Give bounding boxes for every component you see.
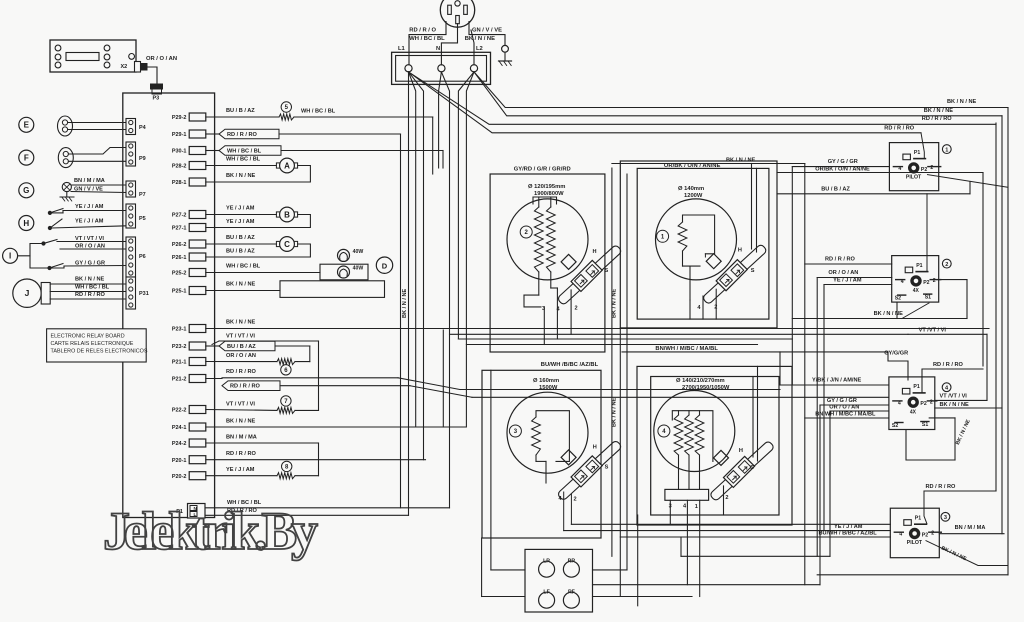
svg-text:GY / G / GR: GY / G / GR [828,159,858,165]
svg-text:RR: RR [568,558,576,564]
svg-text:RD / R / RO: RD / R / RO [926,484,956,490]
svg-text:GY / G / GR: GY / G / GR [827,398,857,404]
svg-text:1900/800W: 1900/800W [534,191,564,197]
svg-text:P3: P3 [153,96,160,102]
svg-text:BN / M / MA: BN / M / MA [74,178,105,184]
svg-text:P25-1: P25-1 [172,289,187,295]
svg-text:P9: P9 [139,156,146,162]
svg-text:2: 2 [575,305,578,311]
svg-text:P1: P1 [916,263,922,269]
svg-text:BK / N / NE: BK / N / NE [947,99,976,105]
svg-text:BK / N / NE: BK / N / NE [874,311,903,317]
svg-text:BU / B / AZ: BU / B / AZ [226,249,255,255]
svg-text:RD / R / RO: RD / R / RO [226,369,256,375]
svg-text:P31: P31 [139,291,149,297]
svg-text:P21-1: P21-1 [172,360,187,366]
svg-text:N: N [436,46,440,52]
svg-text:P28-1: P28-1 [172,180,187,186]
svg-text:OR / O / AN: OR / O / AN [146,56,177,62]
svg-text:I: I [9,252,11,261]
svg-text:P2: P2 [923,280,929,286]
svg-text:4X: 4X [910,409,917,415]
svg-text:Y/BK / J/N / AM/NE: Y/BK / J/N / AM/NE [812,378,861,384]
svg-text:WH / BC / BL: WH / BC / BL [227,149,262,155]
svg-text:40W: 40W [353,249,364,255]
svg-text:P25-2: P25-2 [172,271,187,277]
svg-text:OR / O / AN: OR / O / AN [75,244,105,250]
svg-text:RD / R / RO: RD / R / RO [227,132,257,138]
svg-text:RD / R / RO: RD / R / RO [884,126,914,132]
svg-text:H: H [593,249,597,255]
svg-text:WH / BC / BL: WH / BC / BL [75,284,110,290]
svg-text:P29-1: P29-1 [172,132,187,138]
svg-text:OR / O / AN: OR / O / AN [828,270,858,276]
svg-text:BN / M / MA: BN / M / MA [226,435,257,441]
svg-text:4: 4 [697,305,701,311]
svg-text:BU / B / AZ: BU / B / AZ [226,108,255,114]
svg-text:S: S [751,268,755,274]
svg-text:BN/WH / M/BC / MA/BL: BN/WH / M/BC / MA/BL [655,346,718,352]
svg-text:S: S [605,464,609,470]
svg-text:BN / M / MA: BN / M / MA [955,525,986,531]
svg-text:YE / J / AM: YE / J / AM [834,524,863,530]
svg-text:BU/WH /B/BC /AZ/BL: BU/WH /B/BC /AZ/BL [541,362,599,368]
svg-text:1500W: 1500W [539,385,558,391]
svg-text:RD / R / RO: RD / R / RO [230,384,260,390]
svg-text:P1: P1 [914,150,920,156]
svg-text:2: 2 [945,262,948,268]
svg-text:F: F [24,153,29,162]
svg-text:GY / G / GR: GY / G / GR [75,261,105,267]
svg-text:BK / N / NE: BK / N / NE [226,418,255,424]
svg-text:BK / N / NE: BK / N / NE [226,173,255,179]
svg-text:OR/BK / O/N / AN/NE: OR/BK / O/N / AN/NE [815,166,870,172]
svg-text:P23-1: P23-1 [172,327,187,333]
svg-text:P24-1: P24-1 [172,425,187,431]
svg-text:VT /VT / VI: VT /VT / VI [919,328,947,334]
svg-text:L2: L2 [476,46,483,52]
svg-text:BK / N / NE: BK / N / NE [924,108,953,114]
svg-text:Jelektrik.By: Jelektrik.By [103,501,318,561]
svg-text:H: H [739,448,743,454]
svg-text:RD / R / RO: RD / R / RO [226,451,256,457]
svg-text:P4: P4 [139,125,147,131]
svg-text:P21-2: P21-2 [172,377,187,383]
svg-text:BN/WH / M/BC / MA/BL: BN/WH / M/BC / MA/BL [815,411,876,417]
svg-text:VT /VT / VI: VT /VT / VI [940,394,968,400]
svg-text:P5: P5 [139,216,146,222]
svg-text:PILOT: PILOT [906,175,922,181]
svg-text:H: H [23,219,29,228]
svg-text:RD / R / RO: RD / R / RO [933,362,963,368]
svg-text:4: 4 [945,385,949,391]
svg-text:P20-1: P20-1 [172,458,187,464]
svg-text:YE / J / AM: YE / J / AM [75,204,104,210]
svg-text:ELECTRONIC RELAY BOARD: ELECTRONIC RELAY BOARD [51,334,125,340]
svg-text:YE / J / AM: YE / J / AM [75,218,104,224]
svg-text:P29-2: P29-2 [172,115,187,121]
svg-text:4X: 4X [913,288,920,294]
svg-text:LR: LR [543,558,550,564]
svg-text:Ø 160mm: Ø 160mm [533,378,559,384]
svg-text:P26-1: P26-1 [172,255,187,261]
svg-text:S2: S2 [895,296,901,302]
svg-text:BU / B / AZ: BU / B / AZ [226,235,255,241]
svg-text:YE / J / AM: YE / J / AM [226,467,255,473]
svg-text:GN / V / VE: GN / V / VE [472,27,502,33]
svg-text:Ø 140mm: Ø 140mm [678,186,704,192]
svg-text:BK / N / NE: BK / N / NE [75,277,104,283]
svg-text:B: B [284,211,290,220]
svg-text:P6: P6 [139,254,146,260]
svg-text:RD / R / RO: RD / R / RO [922,116,952,122]
svg-text:OR / O / AN: OR / O / AN [829,405,859,411]
svg-text:P27-2: P27-2 [172,213,187,219]
svg-text:2: 2 [725,495,728,501]
svg-text:LF: LF [543,589,549,595]
svg-text:P27-1: P27-1 [172,226,187,232]
svg-text:YE / J / AM: YE / J / AM [833,278,862,284]
svg-text:S: S [605,268,609,274]
svg-text:P28-2: P28-2 [172,164,187,170]
svg-text:G: G [23,186,29,195]
svg-text:GY/RD / G/R / GR/RD: GY/RD / G/R / GR/RD [514,166,571,172]
svg-text:P30-1: P30-1 [172,149,187,155]
svg-text:P22-2: P22-2 [172,408,187,414]
svg-text:RD / R / O: RD / R / O [409,27,436,33]
svg-text:BK / N / NE: BK / N / NE [465,36,495,42]
svg-text:TABLERO DE RELES ELECTRONICOS: TABLERO DE RELES ELECTRONICOS [51,348,148,354]
svg-text:RD / R / RO: RD / R / RO [75,292,105,298]
svg-text:Ø 140/210/270mm: Ø 140/210/270mm [676,378,725,384]
svg-text:H: H [738,248,742,254]
svg-text:P1: P1 [915,516,921,522]
svg-text:J: J [25,288,30,298]
svg-text:S2: S2 [892,423,898,429]
svg-text:WH / BC / BL: WH / BC / BL [226,264,261,270]
svg-text:X2: X2 [121,64,128,70]
svg-text:BK / N / NE: BK / N / NE [940,402,969,408]
svg-text:P2: P2 [922,533,928,539]
svg-text:YE / J / AM: YE / J / AM [226,219,255,225]
svg-text:E: E [24,121,30,130]
svg-text:4: 4 [683,504,687,510]
svg-text:P24-2: P24-2 [172,441,187,447]
svg-text:YE / J / AM: YE / J / AM [226,206,255,212]
svg-text:RD / R / RO: RD / R / RO [825,256,855,262]
svg-text:BK / N / NE: BK / N / NE [612,398,618,427]
svg-text:VT / VT / VI: VT / VT / VI [75,236,104,242]
svg-text:S1: S1 [922,422,928,428]
svg-text:OR / O / AN: OR / O / AN [226,353,256,359]
svg-text:VT / VT / VI: VT / VT / VI [226,333,255,339]
svg-text:WH / BC / BL: WH / BC / BL [226,157,261,163]
svg-text:BU / B / AZ: BU / B / AZ [821,187,850,193]
svg-text:P1: P1 [913,384,919,390]
svg-text:BU / B / AZ: BU / B / AZ [227,344,256,350]
svg-text:P26-2: P26-2 [172,242,187,248]
svg-text:1: 1 [945,147,948,153]
svg-text:1: 1 [695,504,698,510]
svg-text:C: C [284,240,290,249]
svg-text:P23-2: P23-2 [172,344,187,350]
svg-text:Ø 120/195mm: Ø 120/195mm [528,184,565,190]
svg-text:P2: P2 [920,401,926,407]
svg-text:WH / BC / BL: WH / BC / BL [409,36,445,42]
svg-text:3: 3 [944,515,947,521]
svg-text:PILOT: PILOT [907,540,923,546]
svg-text:2700/1950/1050W: 2700/1950/1050W [682,385,730,391]
svg-text:BK / N / NE: BK / N / NE [612,289,618,318]
svg-text:H: H [593,445,597,451]
svg-text:BK / N / NE: BK / N / NE [226,282,255,288]
svg-text:2: 2 [574,497,577,503]
svg-text:WH / BC / BL: WH / BC / BL [301,109,336,115]
svg-text:S: S [750,465,754,471]
svg-text:RF: RF [568,589,575,595]
svg-text:BK / N / NE: BK / N / NE [226,320,255,326]
svg-text:BK / N / NE: BK / N / NE [402,289,408,318]
svg-text:P7: P7 [139,192,146,198]
svg-text:VT / VT / VI: VT / VT / VI [226,402,255,408]
svg-text:1200W: 1200W [684,193,703,199]
svg-text:BK / N / NE: BK / N / NE [726,158,755,164]
svg-text:BK / N / NE: BK / N / NE [955,418,972,446]
svg-text:A: A [284,162,290,171]
svg-text:D: D [382,261,388,270]
svg-text:S1: S1 [925,295,931,301]
svg-text:GN / V / VE: GN / V / VE [74,187,103,193]
svg-text:L1: L1 [398,46,406,52]
svg-text:P20-2: P20-2 [172,474,187,480]
svg-text:BU/WH / B/BC / AZ/BL: BU/WH / B/BC / AZ/BL [819,531,878,537]
svg-text:CARTE RELAIS ELECTRONIQUE: CARTE RELAIS ELECTRONIQUE [51,341,134,347]
svg-text:40W: 40W [353,265,364,271]
svg-text:BK / N / NE: BK / N / NE [940,545,968,562]
